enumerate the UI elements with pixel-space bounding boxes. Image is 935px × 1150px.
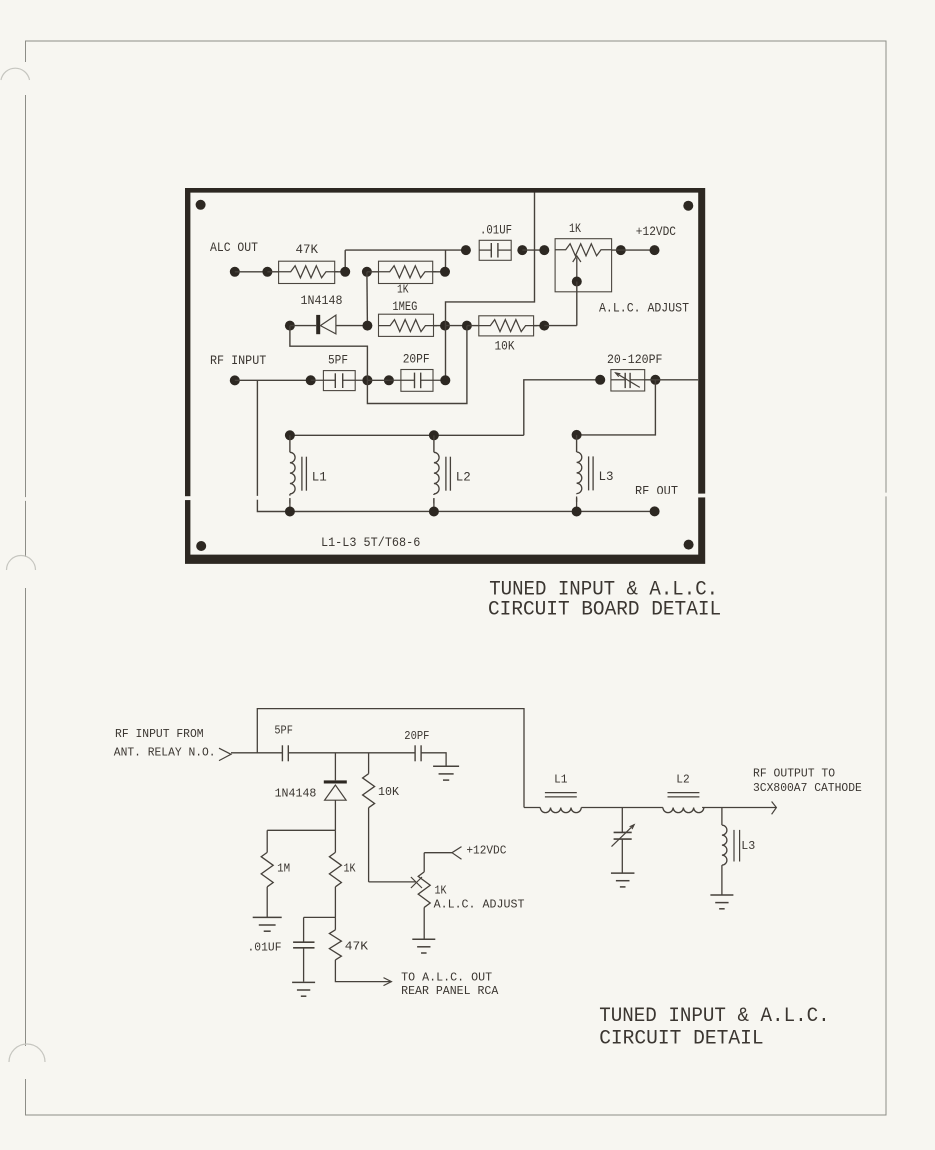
title CIRCUIT BOARD DETAIL — [488, 599, 721, 622]
title TUNED INPUT & A.L.C. circuit — [599, 1005, 830, 1028]
inductor L2 — [663, 774, 704, 813]
wire row1 horizontal — [345, 249, 466, 251]
potentiometer 1K A.L.C. ADJUST — [418, 853, 446, 940]
node 20PF-right — [440, 375, 450, 385]
ALC OUT arrowhead — [384, 978, 392, 986]
label TO A.L.C. OUT — [401, 972, 492, 985]
label 1N4148 — [275, 788, 317, 801]
wire cap-right to pot-left — [522, 249, 544, 251]
node pot wiper — [572, 277, 582, 287]
svg-text:20PF: 20PF — [403, 351, 430, 366]
resistor 47K — [329, 917, 368, 960]
variable capacitor tune — [612, 808, 635, 874]
ground pot — [412, 939, 435, 953]
label RF INPUT FROM — [115, 728, 204, 741]
svg-text:RF INPUT FROM: RF INPUT FROM — [115, 728, 204, 741]
svg-text:20-120PF: 20-120PF — [607, 352, 663, 367]
resistor 1K — [367, 261, 445, 296]
node L3-top — [572, 430, 582, 440]
inductor L3 — [722, 808, 755, 895]
label A.L.C. ADJUST — [434, 898, 525, 911]
node L1-bottom — [285, 507, 295, 517]
wire 47K to right pad — [267, 271, 345, 273]
svg-text:RF INPUT: RF INPUT — [210, 353, 266, 368]
mounting hole top-left — [196, 200, 206, 210]
potentiometer 1K trimmer — [555, 221, 612, 292]
RF output arrowhead — [772, 802, 777, 815]
mounting hole bottom-right — [684, 540, 694, 550]
wire diode-left loop down to junction — [290, 326, 368, 381]
wire junction down to 20PF-right — [445, 326, 447, 381]
svg-text:5PF: 5PF — [328, 353, 348, 368]
svg-text:L1-L3 5T/T68-6: L1-L3 5T/T68-6 — [321, 535, 420, 550]
wire diode junction to 1M — [267, 829, 335, 831]
svg-text:10K: 10K — [378, 786, 399, 799]
label RF INPUT — [210, 353, 266, 368]
ground 1M — [253, 917, 282, 931]
svg-text:1K: 1K — [397, 284, 409, 297]
input arrow chevron — [219, 748, 231, 760]
resistor 1M — [261, 830, 290, 917]
node varcap-right — [650, 375, 660, 385]
inductor L1 — [540, 774, 581, 813]
svg-text:1K: 1K — [569, 221, 581, 236]
svg-text:CIRCUIT BOARD DETAIL: CIRCUIT BOARD DETAIL — [488, 599, 721, 622]
node 47K-left — [262, 267, 272, 277]
node row1-cap-right — [517, 245, 527, 255]
diode 1N4148 — [324, 780, 347, 830]
node pot-right — [616, 245, 626, 255]
wire L1 to varcap junction — [581, 807, 663, 809]
svg-text:TUNED INPUT & A.L.C.: TUNED INPUT & A.L.C. — [599, 1005, 830, 1028]
node ALC OUT — [230, 267, 240, 277]
resistor 10K — [363, 753, 399, 882]
wire RF INPUT branch down to L1 bottom — [257, 380, 290, 511]
wire input to 5PF — [231, 752, 282, 754]
node 20PF-left — [384, 375, 394, 385]
label L1-L3 5T/T68-6 — [321, 535, 420, 550]
wire 1MEG-right to 10K-left — [445, 325, 467, 327]
label 1N4148 — [301, 293, 343, 308]
node L2-bottom — [429, 507, 439, 517]
resistor 10K — [467, 316, 544, 354]
svg-text:CIRCUIT DETAIL: CIRCUIT DETAIL — [599, 1027, 763, 1050]
punch hole top — [1, 68, 30, 80]
svg-text:3CX800A7 CATHODE: 3CX800A7 CATHODE — [753, 782, 862, 795]
wire rail to L1 — [524, 807, 540, 809]
label RF OUTPUT TO — [753, 768, 835, 781]
punch hole bottom — [9, 1044, 45, 1062]
svg-text:1N4148: 1N4148 — [275, 788, 317, 801]
wire 20PF to ground — [421, 753, 446, 767]
node 5PF-right junction — [362, 375, 372, 385]
circuit board outline — [185, 188, 705, 564]
wire 47K right pad up to row1 — [344, 250, 346, 272]
wire junction loop to 10K-left — [367, 326, 467, 404]
scan streak artifact — [0, 492, 935, 503]
label A.L.C. ADJUST — [599, 301, 689, 316]
svg-text:20PF: 20PF — [404, 730, 429, 743]
svg-text:A.L.C. ADJUST: A.L.C. ADJUST — [434, 898, 525, 911]
inductor L1 — [290, 435, 327, 511]
resistor 1K — [329, 830, 355, 917]
resistor 47K — [279, 242, 338, 284]
label 3CX800A7 CATHODE — [753, 782, 862, 795]
node 1K-right — [440, 267, 450, 277]
svg-text:5PF: 5PF — [274, 725, 293, 738]
wire junction to 20PF — [367, 379, 389, 381]
ground .01UF — [292, 982, 315, 996]
svg-text:A.L.C. ADJUST: A.L.C. ADJUST — [599, 301, 689, 316]
punch hole middle — [7, 556, 36, 571]
node 1MEG-right — [440, 321, 450, 331]
wire junction up-over to board top — [446, 193, 535, 326]
node RF OUT — [650, 506, 660, 516]
node L1-top — [285, 430, 295, 440]
label RF OUT — [635, 484, 678, 499]
node 10K-right — [539, 321, 549, 331]
wire varcap-right to board edge — [645, 379, 698, 381]
svg-text:1N4148: 1N4148 — [301, 293, 343, 308]
svg-text:ALC OUT: ALC OUT — [210, 240, 258, 255]
svg-text:+12VDC: +12VDC — [466, 845, 506, 858]
label REAR PANEL RCA — [401, 985, 498, 998]
wire L1-L2 top rail — [290, 434, 524, 436]
wire L2 to RF output arrow — [702, 807, 776, 809]
svg-text:ANT. RELAY N.O.: ANT. RELAY N.O. — [114, 747, 216, 760]
inductor L2 — [434, 435, 471, 511]
svg-text:L3: L3 — [741, 840, 755, 853]
node L3-bottom — [572, 507, 582, 517]
title TUNED INPUT & A.L.C. — [489, 579, 718, 602]
label 20-120PF — [607, 352, 663, 367]
node diode-right / 1MEG-left — [362, 321, 372, 331]
capacitor .01UF — [248, 917, 315, 981]
svg-text:1MEG: 1MEG — [392, 299, 417, 314]
variable capacitor 20-120PF — [611, 370, 645, 391]
wire top rail bypass — [257, 709, 524, 808]
label +12VDC — [466, 845, 506, 858]
svg-text:L1: L1 — [554, 774, 567, 787]
svg-text:+12VDC: +12VDC — [636, 224, 676, 239]
wire varcap-right down to L3 top — [577, 380, 656, 435]
svg-text:47K: 47K — [296, 242, 319, 257]
svg-text:1M: 1M — [277, 863, 290, 876]
svg-text:L3: L3 — [599, 469, 614, 484]
diode 1N4148 — [290, 315, 368, 334]
capacitor 5PF — [311, 353, 368, 391]
node 1K-left — [362, 267, 372, 277]
node 5PF-left — [306, 375, 316, 385]
inductor L3 — [577, 435, 614, 512]
svg-text:L1: L1 — [312, 470, 327, 485]
svg-text:L2: L2 — [456, 470, 471, 485]
wire 1K right pad up to row1 — [445, 250, 447, 272]
label ALC OUT — [210, 240, 258, 255]
wire varcap-left feed from L2 column — [524, 380, 600, 436]
wire 47K to ALC OUT arrow — [335, 960, 391, 982]
svg-text:.01UF: .01UF — [480, 223, 512, 238]
wire pot-right to +12VDC pad — [612, 249, 655, 251]
+12VDC arrow chevron — [452, 847, 462, 860]
capacitor 20PF — [389, 351, 445, 391]
svg-text:L2: L2 — [676, 774, 689, 787]
capacitor 20PF — [404, 730, 429, 761]
svg-text:TO A.L.C. OUT: TO A.L.C. OUT — [401, 972, 492, 985]
node row1-cap-left — [461, 245, 471, 255]
wire bottom rail to RF OUT — [290, 510, 655, 512]
label +12VDC — [636, 224, 676, 239]
wire 10K to pot wiper — [369, 881, 416, 883]
node diode-anode-left — [285, 321, 295, 331]
node pot-left — [539, 245, 549, 255]
label ANT. RELAY N.O. — [114, 747, 216, 760]
svg-text:1K: 1K — [435, 884, 447, 897]
ground L3 — [710, 895, 733, 909]
svg-text:REAR PANEL RCA: REAR PANEL RCA — [401, 985, 498, 998]
node 10K-left — [462, 321, 472, 331]
resistor 1MEG — [379, 299, 446, 336]
wire RF INPUT to 5PF — [235, 379, 311, 381]
svg-text:10K: 10K — [495, 339, 515, 354]
capacitor 5PF — [274, 725, 293, 762]
node varcap-left — [595, 375, 605, 385]
wire 1K-left down to diode row — [366, 272, 369, 326]
wire 10K-right to pot wiper line — [544, 325, 577, 327]
ground varcap — [611, 873, 635, 887]
wire ALC OUT to 47K — [235, 271, 268, 273]
svg-text:1K: 1K — [344, 863, 356, 876]
svg-text:.01UF: .01UF — [248, 942, 282, 955]
wire pot to +12VDC — [424, 852, 452, 854]
mounting hole top-right — [683, 201, 693, 211]
node +12VDC — [650, 245, 660, 255]
node RF INPUT — [230, 375, 240, 385]
svg-text:47K: 47K — [345, 941, 368, 954]
capacitor .01UF — [479, 223, 512, 261]
wire 1K to .01UF — [304, 916, 336, 918]
node L2-top — [429, 430, 439, 440]
title CIRCUIT DETAIL — [599, 1027, 763, 1050]
wire main to diode — [334, 753, 336, 781]
svg-text:RF OUTPUT TO: RF OUTPUT TO — [753, 768, 835, 781]
mounting hole bottom-left — [196, 541, 206, 551]
ground 20PF — [433, 766, 459, 780]
node 47K-right — [340, 267, 350, 277]
wire pot wiper down to 10K row — [576, 282, 578, 326]
wire 5PF to 20PF — [288, 752, 415, 754]
pot wiper arrowhead — [411, 877, 422, 888]
